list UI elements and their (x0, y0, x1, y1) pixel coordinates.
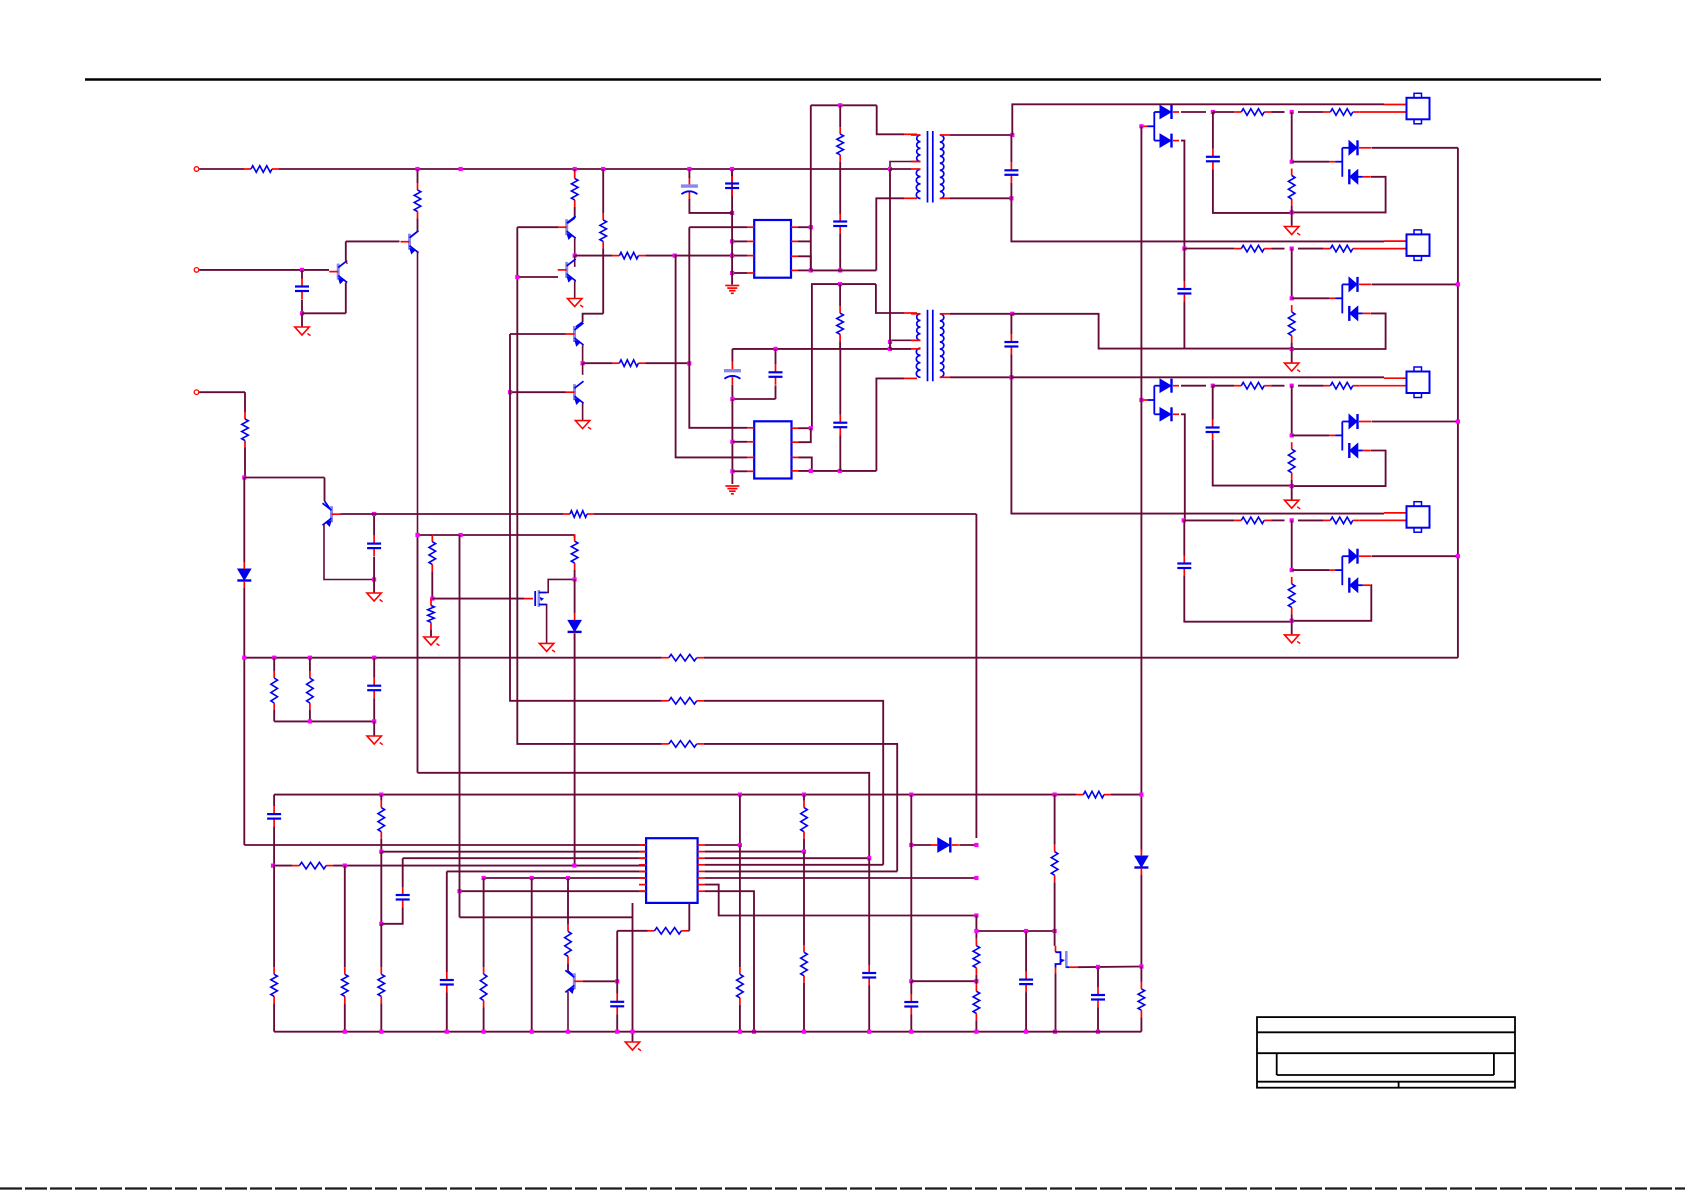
node x911 y981 (909, 979, 913, 983)
wire to C19 (616, 981, 618, 994)
node y931 a (974, 929, 978, 933)
node rail l (909, 1030, 913, 1034)
wire D2l down x1184 (1181, 141, 1184, 249)
junction (730, 167, 734, 171)
node block D J0 (1182, 518, 1186, 522)
wire x532 down (531, 878, 533, 1032)
wire x976 down (975, 514, 977, 838)
wire rail y658 right (704, 657, 1458, 659)
wire x1141 vertical (1140, 126, 1142, 851)
capacitor C17 (396, 887, 410, 908)
wire to ground (301, 313, 303, 327)
wire block C J1 to J2 (1291, 386, 1293, 436)
wire block B J1 to Rb (1298, 248, 1323, 250)
wire to T2 primary bottom (876, 378, 904, 471)
diode block B down (1349, 306, 1371, 321)
transistor Q7 (323, 503, 341, 526)
resistor R17 (662, 698, 704, 705)
node block D J1 (1290, 518, 1294, 522)
node C7 top (773, 347, 777, 351)
node x740 T (738, 843, 742, 847)
wire rail to C15 (373, 658, 375, 678)
wire rail y658 left (244, 657, 662, 659)
wire R9 to IC1 pin3 (645, 255, 747, 257)
node block A J2 (1290, 160, 1294, 164)
wire block D to vbus (1372, 555, 1458, 557)
wire R13 to rail (839, 341, 841, 349)
controller U3 (646, 838, 698, 903)
wire x381 down (380, 852, 382, 924)
wire x732 vertical (731, 169, 733, 285)
node x732 p3 (730, 254, 734, 258)
resistor R33 (1138, 982, 1145, 1017)
node +B at R2 (415, 167, 419, 171)
capacitor C15 (367, 678, 381, 699)
wire rail to C7 (775, 349, 777, 364)
wire block A return (1292, 177, 1386, 213)
node T6 base (508, 390, 512, 394)
node y535 b (459, 533, 463, 537)
wire sec2 to C10 (1010, 314, 1012, 334)
wire block C J1 to Rb (1298, 385, 1323, 387)
wire J1-3 down (244, 392, 246, 412)
node D2 feed (1139, 124, 1143, 128)
wire block B pin2 left (1184, 248, 1235, 250)
wire U3 row L5 (447, 870, 646, 872)
wire bottom rail (274, 1031, 1141, 1033)
block B resistor Rc (1288, 305, 1295, 343)
wire x447 down (446, 871, 448, 972)
wire block A to ground (1291, 206, 1293, 226)
node Q7 base (372, 512, 376, 516)
block A resistor Rc (1288, 169, 1295, 207)
node bus end (1139, 793, 1143, 797)
wire block B J1 to J2 (1291, 249, 1293, 299)
stub (273, 658, 275, 671)
wire x484 down (483, 878, 485, 967)
wire tap join (889, 342, 891, 349)
connector block B (1407, 230, 1430, 261)
wire C5 to R4 row (839, 234, 841, 270)
stub (380, 795, 382, 801)
transformer T2 secondary winding (940, 314, 944, 378)
wire M2 source to rail (1055, 974, 1057, 1032)
wire R7 to drain node (574, 570, 576, 579)
wire C10 down (1010, 355, 1012, 378)
wire C17 to x381 (381, 908, 402, 924)
wire x510 down to y701 row (510, 334, 560, 701)
wire D4 down (1140, 875, 1142, 967)
wire bottom bus right (1111, 794, 1141, 796)
wire to C23 (1097, 967, 1099, 987)
wire block B to diodes (1292, 297, 1329, 299)
resistor R14 (662, 654, 704, 661)
diode block A up (1349, 140, 1371, 155)
wire sec to C9 (1010, 135, 1012, 162)
wire x460 vertical (459, 535, 461, 891)
transformer T2 primary lower winding (916, 348, 920, 377)
wire U3 bottom pin (688, 903, 690, 931)
transistor T5 (566, 323, 584, 346)
wire x244 down to D0 (243, 478, 245, 563)
wire D5 right (959, 844, 976, 846)
wire x1026 down (1025, 931, 1027, 972)
wire U1 R1 lead (798, 226, 811, 228)
transistor T6 (566, 381, 584, 404)
resistor R24 (480, 967, 487, 1007)
wire y773 to U3 R3 (418, 773, 870, 858)
wire U2 R1 lead (799, 427, 811, 429)
wire block C return (1292, 451, 1386, 487)
wire M2 drain row (1078, 966, 1142, 969)
wire T5 base row (510, 333, 566, 335)
diode block C down (1349, 443, 1371, 458)
node rail C23 (1096, 1030, 1100, 1034)
wire T8 collector diagonal (568, 971, 574, 976)
node rail j (802, 1030, 806, 1034)
wire x517 down to y745 row (517, 227, 560, 744)
wire C3 to x732 (689, 199, 732, 213)
wire x274 down (273, 866, 275, 968)
resistor R32 (1051, 845, 1058, 883)
wire R3 to node (244, 448, 246, 478)
stub2 (273, 710, 275, 721)
node row6 c (566, 876, 570, 880)
transformer T2 (927, 310, 929, 382)
wire R33 to rail (1140, 1017, 1142, 1031)
junction (601, 167, 605, 171)
stub bus R8 (574, 169, 576, 172)
wire R29 to rail (803, 983, 805, 1032)
stub2 (309, 710, 311, 721)
wire x976 c (975, 981, 977, 984)
resistor R6 (428, 599, 435, 630)
capacitor C22 (1019, 972, 1033, 993)
wire block A to diodes (1292, 161, 1329, 163)
resistor R13 (837, 306, 844, 341)
wire U2 R3 jog (799, 457, 812, 471)
node row2 (379, 850, 383, 854)
wire R25 to T8 (567, 963, 569, 971)
wire block D pin2 red leads (1360, 519, 1407, 521)
wire C14 to block D rail (1184, 576, 1291, 622)
block D resistor Ra (1234, 517, 1271, 524)
wire T1 center tap (890, 162, 921, 170)
wire row3 down (402, 858, 404, 887)
node block D J2 (1290, 568, 1294, 572)
node y931 b (1024, 929, 1028, 933)
wire J0C to C13 (1212, 386, 1214, 420)
node T1 tap (888, 167, 892, 171)
resistor R20a (271, 967, 278, 1003)
diode block D down (1349, 578, 1371, 593)
wire T4 collector up (574, 256, 577, 267)
junction (459, 167, 463, 171)
wire y514 row left (341, 513, 564, 515)
node x689 (687, 361, 691, 365)
diode block A down (1349, 169, 1371, 184)
wire T4 base row (517, 276, 558, 278)
node rail Ra (272, 656, 276, 660)
resistor R20 (378, 801, 385, 839)
node y535 a (415, 533, 419, 537)
ground block B (1285, 363, 1301, 372)
node block D rail (1290, 619, 1294, 623)
resistor R3 (242, 412, 249, 448)
node block B J2 (1290, 296, 1294, 300)
wire T8 emitter down (567, 991, 569, 1032)
wire block C to vbus (1372, 421, 1458, 423)
mosfet M2 (1056, 946, 1078, 974)
transformer T1 (927, 131, 929, 203)
wire U3 R6 row (705, 877, 977, 879)
resistor R27 (737, 967, 744, 1005)
ground U3 (625, 1042, 641, 1051)
wire C18 to rail (446, 993, 448, 1032)
wire y535 row (418, 534, 575, 536)
wire R24 to rail (483, 1008, 485, 1032)
resistor R21 (378, 967, 385, 1003)
ground Q2 (295, 327, 311, 336)
node y399 (730, 397, 734, 401)
wire x617 down (616, 931, 618, 982)
wire block A (1271, 111, 1284, 113)
wire x812 to y284 row (811, 284, 876, 428)
node y721 gnd (372, 719, 376, 723)
wire T2 sec bottom (950, 376, 1011, 378)
capacitor C2 (367, 536, 381, 557)
wire C13 to block C return (1213, 440, 1292, 486)
wire x869 down (868, 858, 870, 965)
black separator line (85, 78, 1601, 80)
node C23 top (1096, 965, 1100, 969)
mosfet M1 (535, 590, 546, 607)
node block A J0 (1211, 110, 1215, 114)
wire U2 R2 jog (799, 428, 811, 442)
wire y701 to U3 R4 (704, 701, 884, 865)
wire gate red lead (524, 598, 533, 600)
wire D5 left (911, 844, 931, 846)
resistor R8 (571, 172, 578, 207)
diode D0 (237, 562, 251, 588)
node rail a (343, 1030, 347, 1034)
transistor T4 (558, 259, 576, 282)
wire C11 to block A return (1213, 169, 1292, 213)
node block A J1 (1290, 110, 1294, 114)
block B resistor Rb (1323, 245, 1359, 252)
resistor R12 (837, 127, 844, 162)
node block C J2 (1290, 433, 1294, 437)
terminal J1-3 (194, 390, 199, 395)
wire to Q2 emitter (302, 312, 346, 314)
wire R4 net row (811, 269, 877, 271)
wire bus to R2 (417, 169, 419, 183)
wire row4 a (273, 865, 292, 867)
transformer T1 secondary winding (940, 135, 944, 199)
transformer T1 primary upper winding (917, 135, 921, 162)
wire block A diode stub (1342, 147, 1349, 149)
wire y105 row (811, 104, 877, 106)
wire C7 down (775, 385, 777, 399)
node T2 sec top (1010, 312, 1014, 316)
ground block D (1285, 635, 1301, 644)
resistor R15 (271, 671, 278, 710)
wire C19 to rail (616, 1014, 618, 1031)
wire block A to vbus (1372, 147, 1458, 149)
wire C16 down (273, 827, 275, 866)
wire x244 down to bottom row (243, 588, 245, 845)
resistor R31 (973, 984, 980, 1020)
wire x632 vertical (632, 903, 634, 1032)
node U1 L4 (730, 271, 734, 275)
node vbus b (1456, 282, 1460, 286)
wire block A J1 to J2 (1291, 112, 1293, 162)
node rail h (630, 1030, 634, 1034)
op-amp U1 (754, 220, 791, 278)
wire y981 row (911, 980, 976, 982)
node rail f (566, 1030, 570, 1034)
wire bottom bus left (274, 794, 1076, 796)
wire to ground (373, 580, 375, 594)
node U2 R4 (809, 469, 813, 473)
stub gnd (731, 478, 733, 484)
wire R to rail (273, 1003, 275, 1031)
wire block D diode common blue (1329, 569, 1336, 571)
node block B J1 (1290, 247, 1294, 251)
wire T6 collector up (582, 363, 585, 374)
node Q2 base (300, 268, 304, 272)
wire J1-3 (199, 391, 245, 393)
wire R6 to ground (430, 629, 432, 637)
wire tap to lower winding (890, 348, 911, 350)
wire x675 to U2 L3 (675, 256, 747, 458)
node bus x740 (738, 793, 742, 797)
wire block C (1271, 385, 1284, 387)
transformer T2 primary upper winding (917, 314, 921, 341)
wire y105 to R12 (839, 105, 841, 127)
wire to M2 gate (1054, 931, 1056, 946)
node T5e/T6c (581, 361, 585, 365)
capacitor C8 (833, 415, 847, 436)
wire D3u out (1181, 385, 1206, 387)
wire gate row (432, 598, 524, 600)
wire y917 row (460, 916, 633, 918)
wire Q7 collector diagonal (325, 501, 331, 510)
node vbus d (1456, 554, 1460, 558)
wire y745 to U3 R5 (704, 744, 898, 872)
wire y745 left (560, 743, 662, 745)
wire U2 L4 lead (732, 470, 747, 472)
title block frame (1257, 1017, 1515, 1088)
node rail b (379, 1030, 383, 1034)
wire J0B to C12 (1183, 249, 1185, 282)
wire block D pin2 left (1184, 519, 1235, 521)
wire T34 row (575, 255, 613, 257)
wire y349 rail (732, 348, 889, 350)
diode block B up (1349, 277, 1371, 292)
wire U1 R2 lead (798, 240, 811, 242)
resistor R19 (1076, 791, 1111, 798)
wire R31 to rail (975, 1020, 977, 1031)
wire Q7 emitter down (324, 524, 375, 580)
connector block A (1407, 93, 1430, 124)
wire T4 emitter down (574, 281, 577, 299)
wire U3 R1 row (705, 844, 740, 846)
wire C22 to rail (1025, 992, 1027, 1032)
wire block C diode common blue (1329, 434, 1336, 436)
wire to ground (632, 1032, 634, 1042)
wire J1-1 to R1 (199, 168, 244, 170)
node x976 y981 (974, 979, 978, 983)
node block C J1 (1290, 384, 1294, 388)
wire down to Q7 (324, 478, 326, 502)
block C resistor Rc (1288, 442, 1295, 480)
wire J0A to C11 (1212, 112, 1214, 149)
node bus R20 (379, 793, 383, 797)
node block C rail (1290, 484, 1294, 488)
resistor R29 (801, 945, 808, 983)
wire block C diode stub (1342, 421, 1349, 423)
node rail g (615, 1030, 619, 1034)
terminal J1-1 (194, 167, 199, 172)
node rail d (482, 1030, 486, 1034)
ground U2 (725, 486, 739, 494)
wire Q2 emitter down (345, 283, 347, 314)
wire x568 down (567, 878, 569, 924)
wire T3 base row (517, 226, 558, 228)
wire block B to vbus (1372, 283, 1458, 285)
wire to ground (373, 721, 375, 736)
node U2 L4 (730, 469, 734, 473)
wire corner (574, 535, 576, 538)
node U1 R1 (809, 225, 813, 229)
ground U1 (725, 286, 739, 294)
wire T1 sec top (950, 134, 1012, 136)
junction (573, 167, 577, 171)
wire to R (1213, 385, 1235, 387)
wire U2 L2 lead (732, 441, 747, 443)
wire block D (1271, 519, 1284, 521)
wire x689 vertical upper (688, 227, 690, 363)
wire Q1 collector diagonal (410, 232, 418, 239)
node x804 T (802, 850, 806, 854)
wire y721 row (274, 720, 374, 722)
wire U3 R3 row (705, 857, 870, 859)
tiny (430, 535, 432, 536)
capacitor C5 (833, 214, 847, 235)
wire block B (1271, 248, 1284, 250)
node row6 a (482, 876, 486, 880)
wire R10 down (602, 248, 604, 313)
capacitor C20 (862, 965, 876, 986)
wire C21 to rail (910, 1015, 912, 1032)
wire y931 row b (688, 930, 689, 932)
wire block B diode stub (1342, 283, 1349, 285)
wire block D diode stub (1342, 555, 1349, 557)
wire R21 to rail (380, 1003, 382, 1031)
diode D2 pair lower (1160, 134, 1179, 148)
wire block C pin1 row (1011, 376, 1384, 378)
wire U3 R8 down (705, 891, 754, 1031)
block A resistor Ra (1234, 109, 1271, 116)
wire U3 R5 row (705, 870, 898, 872)
node rail m (974, 1030, 978, 1034)
node rail n (1024, 1030, 1028, 1034)
wire R27 to rail (739, 1005, 741, 1032)
node row6 b (530, 876, 534, 880)
wire x740 down (739, 845, 741, 967)
wire U3 row L6 (484, 877, 646, 879)
